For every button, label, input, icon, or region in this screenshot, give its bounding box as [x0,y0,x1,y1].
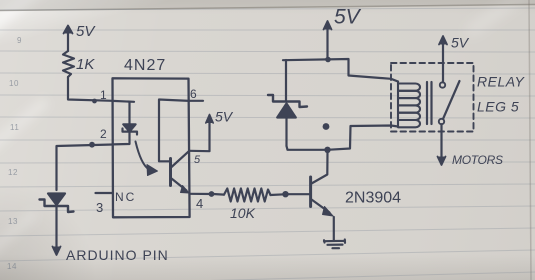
junction dot pin 4 [209,191,215,197]
pin 4 wire [190,193,213,195]
svg-text:3: 3 [96,200,103,215]
phototransistor in U1 [159,100,189,194]
node: collector / flyback junction dot [324,147,330,153]
5V arrow (middle) [324,21,332,57]
pin 5 stub and 5V arrow [190,115,214,152]
wire: pin 2 to left branch [57,145,113,191]
svg-text:4N27: 4N27 [124,57,166,74]
svg-text:MOTORS: MOTORS [452,153,503,167]
wire: coil bottom return [328,126,399,150]
optocoupler U1 4N27 box [113,78,190,217]
5V supply arrow top-left [64,26,73,52]
svg-text:5: 5 [194,154,201,166]
svg-text:2: 2 [100,127,107,141]
transistor Q1 2N3904 [311,152,334,240]
svg-text:4: 4 [196,196,203,211]
svg-text:5V: 5V [215,109,234,125]
wire: flyback bottom rail [287,146,328,150]
top rail wire [283,59,398,82]
wire: contact to motors arrow [440,124,442,160]
LED inside U1 [113,101,138,144]
relay blade [443,81,459,119]
page right edge line (decorative) [529,0,531,280]
5V arrow (relay) [439,36,447,82]
svg-text:ARDUINO PIN: ARDUINO PIN [66,247,169,263]
zener diode D1 (arduino branch) [40,194,74,213]
ground [324,240,345,249]
wire: to Q1 base [287,193,309,195]
svg-text:5V: 5V [451,35,470,51]
wire: D1 to arduino arrow [55,205,57,247]
relay coil L1 [398,82,420,128]
arduino pin arrow [53,247,61,256]
margin row numbers [17,36,22,45]
svg-text:1: 1 [100,88,107,102]
light arrow to phototransistor [136,142,158,176]
svg-text:1K: 1K [76,56,95,73]
paper top edge [0,0,535,11]
relay dashed box [391,63,474,132]
photo glare streaks [0,0,63,34]
relay contact top [440,82,445,87]
pin 3 stub [96,192,113,194]
junction dot at base wire [282,191,288,197]
resistor R2 10K [213,189,287,202]
junction dot on pin 2 wire [89,142,95,148]
stray dot near coil return [323,123,330,130]
motors arrow [438,157,446,166]
junction dot on pin 1 wire [92,99,97,104]
svg-text:2N3904: 2N3904 [345,190,401,207]
pin 6 stub [190,100,204,102]
junction dot on top rail [325,57,331,63]
relay core [427,82,432,124]
svg-text:6: 6 [190,87,197,101]
svg-text:5V: 5V [334,6,362,29]
resistor R1 1K [63,51,74,77]
svg-text:NC: NC [115,190,136,204]
zener diode D2 (flyback) [268,60,307,146]
svg-text:RELAY: RELAY [477,74,526,90]
svg-text:5V: 5V [76,23,96,40]
svg-text:10K: 10K [230,205,256,221]
wire: R1 bottom to pin 1 [68,77,113,101]
relay contact bottom [439,119,444,124]
svg-text:LEG 5: LEG 5 [477,99,519,115]
